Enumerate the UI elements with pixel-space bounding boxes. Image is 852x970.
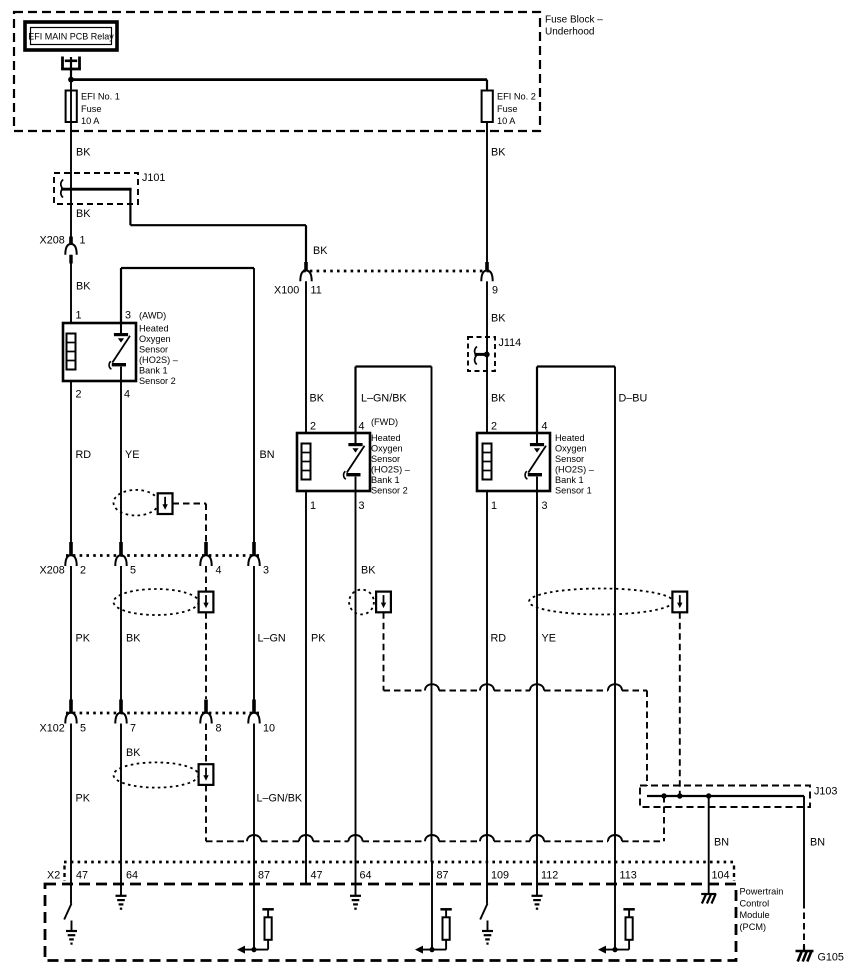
pin labels sensor 1 [491, 421, 548, 513]
drain wire: long run to splice J103 [206, 796, 664, 841]
wire BK fuse1 to X208 pin1 [70, 122, 72, 237]
drain wire X102-8 down [205, 724, 207, 842]
svg-text:BN: BN [714, 837, 729, 849]
svg-text:1: 1 [310, 500, 316, 512]
PCM internal: driver resistor at pin 113 [598, 862, 635, 954]
wire PK X208-2 to X102-5 [71, 566, 91, 700]
svg-text:J101: J101 [142, 172, 165, 184]
svg-text:X102: X102 [40, 723, 65, 735]
sensor 1 description text [555, 433, 595, 496]
shield drain box (sensor1) [672, 592, 687, 613]
svg-text:Sensor: Sensor [555, 454, 584, 464]
svg-text:BK: BK [313, 245, 328, 257]
shield symbol ellipse (lower BK) [114, 762, 199, 787]
shield drain box (lower) [199, 764, 214, 785]
wire L-GN/BK X102-10 to X2-87 [254, 724, 303, 863]
svg-text:47: 47 [311, 870, 323, 882]
PCM internal: driver resistor at pin 87 (left) [237, 862, 274, 954]
svg-text:BK: BK [126, 747, 141, 759]
svg-text:1: 1 [80, 235, 86, 247]
svg-text:4: 4 [359, 421, 365, 433]
svg-text:Heated: Heated [555, 433, 585, 443]
wire BK fuse2 to X100 pin 9 [487, 122, 506, 262]
svg-text:Control: Control [740, 898, 770, 908]
wire BK X208-5 to X102-7 [121, 566, 141, 700]
svg-text:112: 112 [541, 870, 558, 882]
svg-text:BK: BK [126, 633, 141, 645]
svg-text:Oxygen: Oxygen [371, 444, 403, 454]
wire: AWD pin3 loop over to BN column [121, 268, 254, 542]
label BK (branch) [313, 245, 328, 257]
wire RD AWD pin2 to X208 pin2 [71, 381, 91, 542]
pin labels AWD sensor [76, 310, 132, 401]
svg-text:64: 64 [126, 870, 138, 882]
HO2S Bank 1 Sensor 1 sensor box [477, 433, 550, 491]
svg-text:11: 11 [311, 285, 322, 297]
svg-text:3: 3 [263, 565, 269, 577]
svg-text:4: 4 [124, 389, 130, 401]
wire BN J103 to G105 [804, 796, 825, 946]
svg-text:X208: X208 [40, 565, 65, 577]
shield drain box (AWD) [158, 493, 173, 514]
svg-text:BK: BK [76, 281, 91, 293]
wire PK X102-5 to X2-47 [71, 724, 91, 863]
wire BK X102-7 to X2-64 [121, 724, 141, 863]
connector X2 row [47, 862, 734, 882]
drain wire FWD to splice J103 [384, 612, 648, 786]
svg-text:5: 5 [130, 565, 136, 577]
wire BK X100-11 to HO2S FWD pin 2 [306, 281, 325, 433]
wire RD sensor1 pin1 to X2-109 [487, 491, 506, 863]
svg-text:4: 4 [216, 565, 222, 577]
svg-text:Heated: Heated [139, 324, 169, 334]
svg-text:Bank 1: Bank 1 [371, 475, 400, 485]
svg-text:BN: BN [260, 449, 275, 461]
Powertrain Control Module (PCM) box [45, 884, 736, 961]
svg-text:10: 10 [263, 723, 275, 735]
svg-text:RD: RD [76, 449, 92, 461]
svg-text:X2: X2 [47, 870, 60, 882]
wire: J101 branch to X100 pin 11 [130, 189, 306, 262]
connector X102 row pins 5 7 8 10 [40, 700, 276, 735]
svg-text:9: 9 [492, 285, 498, 297]
wire YE AWD pin4 to X208 pin5 [121, 381, 139, 542]
svg-text:Sensor: Sensor [139, 345, 168, 355]
svg-text:Fuse: Fuse [497, 104, 517, 114]
svg-text:(AWD): (AWD) [139, 311, 166, 321]
shield drain box (FWD) [376, 592, 391, 613]
PCM internal: driver resistor at pin 87 (mid) [415, 862, 452, 954]
svg-text:Oxygen: Oxygen [139, 334, 171, 344]
drain wire X208-4 to X102-8 [205, 566, 207, 699]
svg-text:BK: BK [491, 393, 506, 405]
svg-text:Oxygen: Oxygen [555, 444, 587, 454]
svg-text:10 A: 10 A [497, 116, 516, 126]
connector X208 pin 1 [40, 235, 86, 264]
svg-text:J114: J114 [499, 337, 522, 349]
label BN [260, 449, 275, 461]
svg-text:BK: BK [76, 208, 91, 220]
AWD sensor description text [139, 311, 179, 387]
FWD sensor description text [371, 417, 411, 496]
wire BK X100-9 to splice J114 [487, 281, 506, 337]
svg-text:BK: BK [491, 147, 506, 159]
svg-text:109: 109 [491, 870, 509, 882]
shield symbol ellipse (mid BK) [114, 589, 199, 615]
svg-text:X100: X100 [274, 285, 299, 297]
connector X100 row pins 11 9 [274, 262, 498, 297]
svg-text:(PCM): (PCM) [740, 922, 767, 932]
svg-text:X208: X208 [40, 235, 65, 247]
svg-text:87: 87 [437, 870, 449, 882]
svg-text:3: 3 [542, 500, 548, 512]
svg-text:Fuse Block –: Fuse Block – [545, 15, 603, 26]
relay output terminal symbol [61, 57, 81, 80]
svg-text:PK: PK [311, 633, 326, 645]
fuse F2 EFI No. 2 10 A [482, 91, 536, 127]
svg-text:Bank 1: Bank 1 [139, 366, 168, 376]
svg-text:2: 2 [80, 565, 86, 577]
HO2S (FWD) Bank 1 Sensor 2 sensor box [297, 433, 370, 491]
svg-text:(HO2S) –: (HO2S) – [139, 355, 179, 365]
svg-text:PK: PK [76, 793, 91, 805]
ground G105 [796, 946, 844, 964]
PCM internal: chassis ground at pin 104 [701, 862, 716, 904]
PCM internal: ground at pin 64 (mid) [350, 862, 361, 909]
wire BN J103 to X2-104 [709, 796, 729, 862]
shield drain box (mid) [199, 592, 214, 613]
PCM internal: ground at pin 64 [116, 862, 127, 909]
drain wire sensor1 to splice J103 [679, 612, 681, 796]
splice J101 [54, 172, 165, 204]
svg-text:64: 64 [360, 870, 372, 882]
svg-text:J103: J103 [814, 786, 837, 798]
svg-text:Sensor: Sensor [371, 454, 400, 464]
svg-text:Bank 1: Bank 1 [555, 475, 584, 485]
svg-text:G105: G105 [818, 952, 844, 964]
PCM internal: ground at pin 112 [532, 862, 543, 909]
svg-text:1: 1 [491, 500, 497, 512]
wire BK to HO2S AWD pin 1 [71, 255, 91, 323]
svg-text:4: 4 [542, 421, 548, 433]
node: feed junction [68, 77, 74, 83]
fuse block label [545, 15, 603, 38]
label BK [76, 147, 91, 159]
svg-text:RD: RD [491, 633, 507, 645]
relay K: EFI MAIN PCB Relay box [25, 22, 117, 50]
svg-text:BK: BK [310, 393, 325, 405]
wire L-GN/BK FWD pin4 loop to X2-87 [356, 367, 432, 863]
svg-text:Fuse: Fuse [81, 104, 101, 114]
svg-text:3: 3 [125, 310, 131, 322]
HO2S (AWD) Bank 1 Sensor 2 sensor box [63, 323, 136, 381]
label BK (below J101) [76, 208, 91, 220]
svg-text:YE: YE [125, 449, 139, 461]
wire: feed bus from relay to fuse 2 [71, 80, 487, 91]
svg-text:2: 2 [491, 421, 497, 433]
wire D-BU sensor1 pin4 loop to X2-113 [537, 367, 647, 863]
drain wire to X208 pin 4 [173, 504, 207, 542]
svg-text:5: 5 [80, 723, 86, 735]
fuse F1 EFI No. 1 10 A [66, 80, 120, 126]
svg-text:8: 8 [216, 723, 222, 735]
svg-text:104: 104 [712, 870, 730, 882]
svg-text:L–GN/BK: L–GN/BK [257, 793, 303, 805]
svg-text:D–BU: D–BU [619, 393, 648, 405]
shield symbol ellipse (sensor1 pair) [529, 589, 673, 615]
svg-text:BK: BK [76, 147, 91, 159]
svg-text:Powertrain: Powertrain [740, 887, 784, 897]
svg-text:BN: BN [810, 837, 825, 849]
wire BK FWD pin3 to X2-64 [356, 491, 377, 862]
svg-text:EFI No. 1: EFI No. 1 [81, 92, 120, 102]
PCM internal: switch and ground at pin 109 [480, 862, 493, 944]
svg-text:Sensor 2: Sensor 2 [371, 486, 408, 496]
pin labels FWD sensor [310, 421, 365, 513]
svg-text:BK: BK [361, 565, 376, 577]
wire PK FWD pin1 to X2-47 [306, 491, 326, 884]
svg-text:3: 3 [359, 500, 365, 512]
svg-text:EFI MAIN PCB Relay: EFI MAIN PCB Relay [28, 32, 114, 42]
svg-text:1: 1 [76, 310, 82, 322]
svg-text:L–GN/BK: L–GN/BK [361, 393, 407, 405]
svg-text:2: 2 [310, 421, 316, 433]
wire BK J114 to HO2S pin 2 [487, 371, 506, 433]
wire YE sensor1 pin3 to X2-112 [537, 491, 556, 863]
svg-text:Sensor 1: Sensor 1 [555, 486, 592, 496]
svg-text:87: 87 [258, 870, 270, 882]
svg-text:113: 113 [620, 870, 637, 882]
svg-text:BK: BK [491, 313, 506, 325]
wire L-GN X208-3 to X102-10 [254, 566, 286, 700]
splice J114 [468, 337, 521, 371]
splice J103 [640, 786, 837, 808]
svg-text:EFI No. 2: EFI No. 2 [497, 92, 536, 102]
shield symbol: twisted pair AWD (ellipse) [114, 490, 159, 516]
PCM label [740, 887, 784, 932]
svg-text:7: 7 [130, 723, 136, 735]
svg-text:(HO2S) –: (HO2S) – [555, 465, 595, 475]
connector X208 row pins 2 5 4 3 [40, 542, 270, 577]
svg-text:47: 47 [76, 870, 88, 882]
svg-text:Heated: Heated [371, 433, 401, 443]
shield symbol ellipse (FWD) [349, 590, 374, 615]
svg-text:Sensor 2: Sensor 2 [139, 376, 176, 386]
svg-text:PK: PK [76, 633, 91, 645]
svg-text:L–GN: L–GN [258, 633, 286, 645]
PCM internal: switch and ground at pin 47 [64, 862, 77, 944]
svg-text:(FWD): (FWD) [371, 417, 398, 427]
svg-text:(HO2S) –: (HO2S) – [371, 465, 411, 475]
fuse block - underhood (dashed enclosure) [14, 12, 540, 131]
svg-text:10 A: 10 A [81, 116, 100, 126]
svg-text:YE: YE [542, 633, 556, 645]
svg-text:2: 2 [76, 389, 82, 401]
svg-text:Underhood: Underhood [545, 27, 594, 38]
svg-text:Module: Module [740, 910, 770, 920]
